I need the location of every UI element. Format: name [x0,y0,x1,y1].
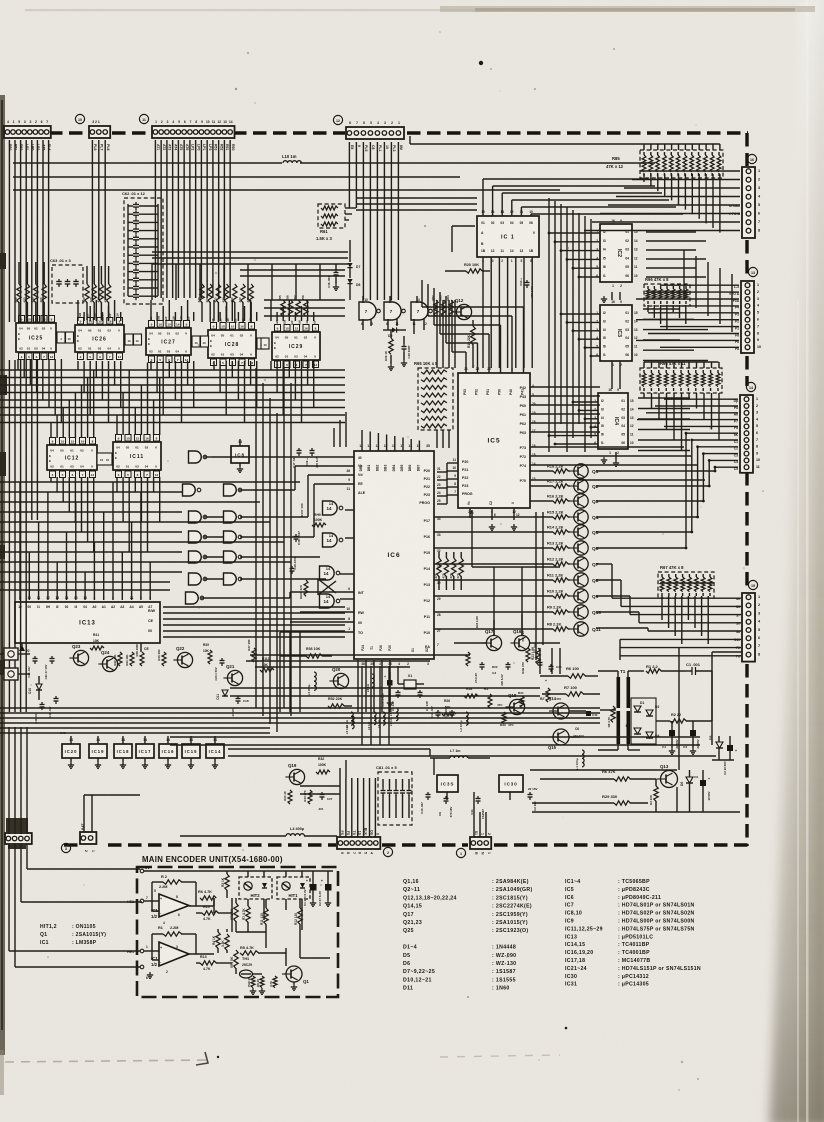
wire stubs latch ICs to y250 jogs [152,264,320,300]
transistor Q18 [505,693,524,715]
resistor cluster R55-R58 vertical [278,295,308,316]
caps near IC35 IC30 [420,787,538,819]
dashed border bottom [64,843,748,846]
wires IC2 right to J13 [636,232,739,347]
wires IC5 right fan out [530,387,705,480]
connector J14 (11 pins) [734,395,760,473]
horizontal bus IC13 lower [0,582,345,625]
resistor R28 and R2' cluster [464,687,503,708]
wire bus from J10 down [92,140,105,300]
horizontal bus feeding IC13 and gates [0,482,300,572]
main encoder unit title [142,855,283,864]
vertical wires bus to IC12 IC11 [51,363,160,439]
connector J15 (8 pins) [734,593,761,662]
wires left edge to bottom connectors [9,727,140,967]
connector J2 ring label [383,847,392,856]
secondary rails mid bottom [170,737,716,756]
NAND gates IC7 three [359,296,432,334]
horizontal feeder wires upper left [13,163,655,190]
IC3 driver [596,300,638,367]
IC26 latch [75,318,124,360]
parts list middle (transistors and diodes) [403,879,533,992]
opto sensors at left edge [0,648,30,680]
inductor L4 400u [180,827,337,836]
zener D5 and C2 10 50V [709,721,737,775]
connector J13 ring label [748,267,757,276]
wires R85 to J16 [584,171,740,231]
connector J12 ring label [333,115,342,124]
electrolytic C3 22 50V [683,721,700,754]
transformer T1 [598,669,644,750]
connector J13 (10 pins) [729,281,761,353]
transistor Q9 with base resistor R10 [434,589,599,604]
resistor R3 22K vertical [649,779,658,812]
Q18 bias parts [442,691,524,727]
connector J16 (8 pins) [729,167,761,238]
encoder thermistor TH1 [240,957,263,978]
encoder input pins HE2 HE1 [127,899,153,980]
encoder resistor R12 120 vertical [294,899,302,958]
transistor Q20 [329,667,348,689]
resistor array R65 10Kx8 [414,361,453,430]
transistor Q5 with base resistor R14 [434,525,599,540]
resistor array R67 47Kx8 [658,565,714,598]
Q20 region parts [280,647,385,728]
wire horizontals right of IC13 [163,631,345,637]
NAND gate at (196,517) [189,511,224,523]
connector J1 (3 pins) [470,831,491,855]
inductor L10 1m [282,154,301,163]
wire bus horizontal jogs y250-270 [152,252,348,276]
NAND gate at (196,457) [189,451,207,463]
resistor R29 330 [532,794,648,805]
IC28 latch [208,323,256,366]
encoder trimmer VR2 5K [230,898,238,932]
links IC2-IC3-IC4 chain [601,292,620,466]
gate region vertical labels R107 C38 C19 RH08 [290,448,327,599]
wire bus from J9 down left side [9,140,48,322]
inductor L7 1m [430,749,490,758]
resistor R6 100 [540,666,598,678]
IC27 latch [146,321,191,363]
resistor R23 1.8K vertical [531,646,540,664]
paper grain overlay [0,0,1,1]
connector J1 ring label [456,848,465,857]
capacitor C16 .001 [327,264,339,290]
IC35 regulator [437,775,458,792]
vertical wires latch row to bus [18,359,314,423]
connector J15 ring label [748,580,757,589]
IC4 driver [594,388,634,455]
wires J16 left harness verticals [0,0,1,1]
left area transistor bias parts [27,633,274,681]
latch enable link boxes [57,332,269,349]
power rails bottom right [530,770,740,812]
wires Q17 Q16 up to IC6 area [454,614,560,643]
crystal X1 [391,674,429,711]
connector J14 ring label [746,382,755,391]
encoder transistor Q1 [282,966,309,984]
wires IC6 bottom pins down [362,666,398,745]
wires IC1 bottom to IC5 top [452,226,532,368]
connector J11 ring label [139,114,148,123]
encoder internal joining wires [214,898,330,984]
transistor Q8 with base resistor R11 [434,573,599,588]
dashed border right [745,133,748,846]
IC19 gate package [89,736,107,768]
encoder wires to page left edge [9,869,142,967]
encoder resistor 3.3K vertical [221,934,229,950]
stray ink dot [479,61,483,65]
resistor array R96 47Kx8 [644,277,690,330]
resistor array R66 47Kx11 [640,361,722,393]
encoder resistor R2 2.2M feedback [152,875,196,911]
caps C48 C49 at left [34,696,66,735]
R85 vertical drops [410,136,720,233]
wires bottom to connector J1 [474,792,486,837]
wires IC3 right to J13 vertical links [643,250,732,361]
vertical bus DB0-DB7 J12 area down to IC6 top [362,430,419,451]
connector J2 (7 pins) [337,828,380,854]
encoder resistor R14 4.7K [196,905,232,921]
vertical wires bus to IC13 top [20,482,150,600]
transistor Q22 [173,646,192,668]
IC13 RAM [15,596,160,643]
vertical wires latch row up to resistors [78,300,314,321]
resistor R20 10K [445,263,534,298]
IC12 latch [47,438,97,478]
encoder resistor R4 1K vertical [212,932,220,948]
wire bus J9 continuation down to bottom left [9,360,37,712]
vertical wires IC12 IC11 down to gates bus [51,477,160,552]
vertical drops to IC20-IC14 row [0,0,1,1]
resistor row 470 below J9 right [82,266,111,320]
NAND gate at (196,557) [189,551,224,563]
encoder op-amp IC1a [144,889,214,925]
IC29 latch [272,325,320,368]
wire bus mid verticals x255-295 [256,368,346,732]
NAND gate at (196,579) [189,573,224,585]
wires J15 lower pins [620,639,741,660]
wires IC1 top to R85 area [483,179,683,216]
IC15 gate package [182,736,200,768]
transistor Q13 [657,764,678,788]
inductor L5 1m and L9 1m coils [345,707,398,734]
NAND gate at (196,537) [189,531,224,543]
opto interrupter HIT1 [277,871,310,930]
transistors Q14 Q15 section [548,696,615,750]
IC13 CE stub and V arrow [19,643,149,653]
horizontal bus feeding IC12/IC11 [0,370,345,423]
IC1 decoder [477,210,539,263]
connector J16 ring label [747,154,756,163]
resistor array R85 47Kx12 [606,150,723,178]
connector J3 (BAT, 2 pins) [80,823,96,852]
NAND gate at (193,598) [186,592,204,604]
resistor R1 2.2 [646,664,686,673]
horizontal bus bottom left [0,708,600,733]
capacitor C1 .001 [686,662,712,721]
resistor row 470 below J11 [197,284,253,322]
transistor Q19 [285,763,304,785]
transistor Q3 with base resistor R16 [530,494,599,509]
parts list left (HIT/Q/IC encoder) [40,924,106,946]
IC11 latch [97,435,161,478]
diode D9 horizontal [383,327,406,338]
wire bus from J12 down [349,142,398,208]
encoder resistor R7 4.7K vertical [242,906,250,932]
electrolytic C25 1 50V [381,672,393,707]
IC8 gate [231,439,249,472]
wires IC6 lower-left RW 00 TO [280,612,354,712]
main encoder unit dashed box [137,867,338,997]
Q19 region parts [283,757,333,811]
resistor R7 100 [542,685,600,696]
wires IC6 P20-PROG to IC5 [437,463,458,504]
capacitor C15 and R22 [540,664,562,702]
IC14 gate package [206,736,224,768]
IC18 gate package [114,736,132,768]
resistor row 470 mid [434,552,463,590]
connector J10 (3 pins) [89,120,110,150]
capacitor array C62 .01x12 [122,191,163,304]
transistor Q16 [510,629,529,651]
wires bottom to connector J2 [300,760,375,837]
caps C13 C43 .047 [430,706,468,732]
connector J3 ring label [61,843,70,852]
NAND gate at (231,557) [224,551,242,563]
NAND gates IC14 flip-flop pair lower [318,566,340,608]
encoder resistor R5 4.7K [240,946,286,955]
NAND gate at (231,517) [224,511,242,523]
staircase harness Q1-Q6 up to J14 [596,432,738,550]
connector J11 (14 pins) [152,120,235,150]
transistor Q24 [98,650,117,672]
resistor R2 22 [656,713,712,723]
parts list right (IC types) [565,879,701,988]
staircase harness Q7-Q11 to J15 [596,564,741,631]
long verticals IC5 area down to Q17 rail [472,510,560,660]
connector J12 (8 pins) [346,121,404,151]
dashed border top [49,131,748,134]
scan speckles [198,607,200,609]
rectifier bridge D1-D4 [626,698,660,744]
IC17 gate package [136,736,154,768]
R67 vertical drops [660,583,714,644]
diode D11 and C16 [216,690,250,716]
IC5 port expander [452,367,535,514]
transistor Q12 [452,298,471,320]
resistor row 470 below J9 left [14,262,46,322]
resistor R6 47K bottom [540,769,656,781]
transistor Q23 [69,644,88,666]
wire verticals below IC6 to bottom rails [358,660,390,712]
diode D6 and C9 [680,770,711,812]
tiny rotated labels above latch row [78,313,317,325]
transistor Q10 with base resistor R9 [434,605,601,620]
R66 vertical drops [644,362,719,451]
wire horizontals y300-316 mid [264,300,345,316]
resistor cluster R62-R64 [431,295,453,316]
transistor Q4 with base resistor R15 [434,510,599,525]
transistor Q1 with base resistor R18 [530,464,599,479]
Q16 Q17 bias parts [466,615,543,686]
capacitor array C81 .01x5 [376,765,412,825]
wires lower middle mesh [230,648,560,800]
wires IC4 right to J14 [637,398,738,451]
encoder bottom resistors [247,976,297,994]
encoder resistor R11 120 vertical [260,899,268,948]
resistor R19 22K vertical [467,320,475,368]
transistor Q6 with base resistor R13 [434,541,599,556]
transistor Q2 with base resistor R17 [530,479,599,494]
transistor Q11 with base resistor R8 [434,622,601,637]
transistor Q7 with base resistor R12 [434,557,599,572]
wire bus from J11 down [155,140,230,298]
electrolytic C4 22 50V [662,721,679,754]
transistor Q21 [223,664,242,686]
encoder electrolytic C2 47 6.3V [318,871,332,906]
encoder op-amp IC1b [144,942,214,974]
horizontal wires y655-666 mid-left [246,655,470,667]
resistor array R61 1.5Kx3 [316,204,356,241]
connector J9 (top left, 8 pins) [4,120,51,150]
wires IC5 bottom pins with grounds [470,508,520,530]
opto interrupter HIT2 [239,871,272,920]
encoder resistor R6 4.7K [198,890,216,900]
NAND gate at (231,490) [224,484,242,496]
connector J4 (left edge, 4 pins) [5,818,32,849]
encoder resistor R3 1K vertical [221,871,229,898]
left edge cut components [0,253,7,674]
IC6 microcontroller [346,444,440,666]
NAND gate at (190,490) [183,484,201,496]
capacitor array C63 .01x3 [50,258,83,303]
transistor Q17 [482,629,501,651]
encoder resistor R1 2.2M feedback [152,926,196,960]
IC16 gate package [159,736,177,768]
NAND gate at (231,579) [224,573,242,585]
faint pencil line bottom left [5,1060,212,1062]
NAND gates IC14 flip-flop pair upper [323,501,343,547]
encoder 5V input pin [140,865,333,873]
wire bus x435-455 verticals [437,300,455,448]
IC2 driver [596,219,638,288]
diodes D7 D8 on J12 wire [347,240,360,300]
diode D10 [28,676,42,700]
IC20 gate package [62,736,80,768]
IC30 regulator [499,775,523,792]
wires J12 to IC1 and D7 region [356,198,477,300]
resistor R09 1K vertical [384,330,394,370]
vertical feed bus left of IC2 IC3 IC4 [548,198,600,452]
connector J10 ring label [75,114,84,123]
inductor L1 100u [575,750,584,770]
encoder electrolytic C1 220 6.3V [303,871,317,906]
resistors R42 R43 vertical pair [113,652,134,666]
IC25 latch [16,316,56,360]
wires from gates to IC6 left [201,457,354,599]
wires IC5 top to upper buses [422,280,524,373]
wire right vertical to J15 pins [679,648,741,770]
capacitor C19 100P [401,336,411,366]
encoder resistor R13 4.7K [196,955,232,971]
NAND gate at (231,537) [224,531,242,543]
encoder trimmer VR1 5K [230,950,238,969]
